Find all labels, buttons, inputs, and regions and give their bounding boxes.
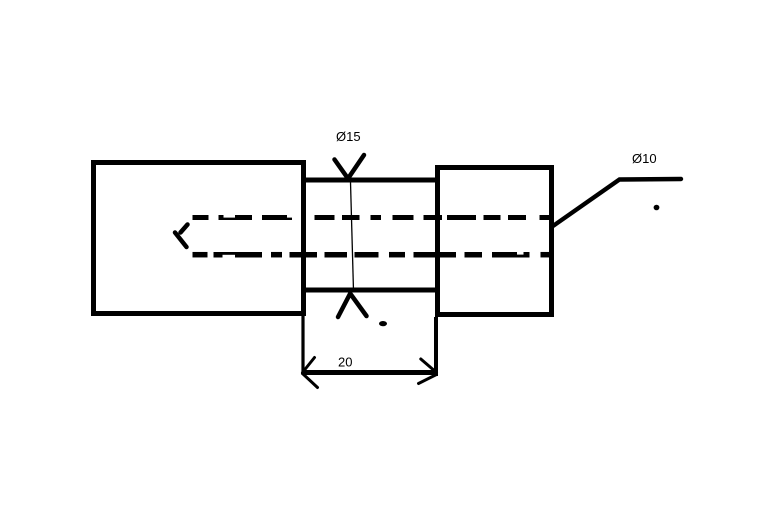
svg-text:20: 20: [338, 355, 352, 370]
Ø15 thin measuring line: [351, 182, 354, 291]
bottom dashed centerline notch 2: [517, 252, 524, 255]
top dashed centerline: [193, 215, 553, 220]
centerline left arrow mark: [175, 225, 188, 248]
bottom dashed centerline notch 1: [223, 255, 236, 258]
svg-text:Ø15: Ø15: [336, 129, 361, 144]
right extension line: [434, 317, 438, 376]
stray dot mark near bottom arrow: [379, 321, 387, 326]
Ø10 leader line: [553, 179, 681, 226]
right arrowhead: [419, 359, 437, 384]
left block rectangle: [94, 163, 304, 314]
top dashed centerline notch 2: [287, 215, 292, 218]
dimension line 20: [302, 370, 438, 375]
stray dot mark near Ø10: [654, 205, 660, 211]
top dashed centerline notch 1: [224, 215, 236, 218]
right block rectangle: [438, 168, 552, 315]
middle section bottom line: [303, 288, 438, 293]
Ø15 top arrow: [335, 155, 365, 179]
left extension line: [301, 316, 304, 375]
middle section top line: [303, 178, 438, 183]
Ø15 bottom arrow: [338, 294, 367, 318]
left arrowhead: [303, 358, 318, 388]
svg-text:Ø10: Ø10: [632, 151, 657, 166]
bottom dashed centerline: [193, 252, 553, 258]
